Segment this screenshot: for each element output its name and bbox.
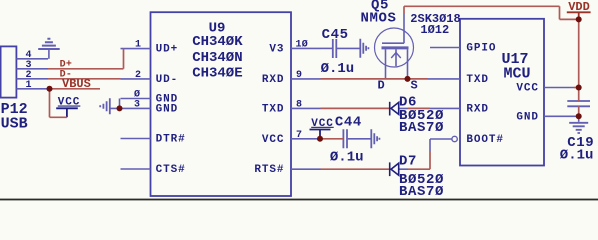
svg-text:V3: V3 (269, 43, 284, 55)
svg-text:D7: D7 (399, 154, 417, 170)
svg-text:BOOT#: BOOT# (466, 134, 504, 146)
svg-text:NMOS: NMOS (361, 11, 397, 27)
svg-text:BAS7Ø: BAS7Ø (399, 120, 444, 136)
svg-text:CH34ØN: CH34ØN (192, 50, 242, 66)
svg-text:UD-: UD- (156, 74, 179, 86)
svg-text:VCC: VCC (311, 118, 334, 130)
svg-text:Ø.1u: Ø.1u (321, 61, 355, 77)
svg-text:9: 9 (296, 70, 302, 81)
svg-text:GPIO: GPIO (466, 43, 496, 55)
svg-text:USB: USB (1, 116, 28, 133)
svg-text:VCC: VCC (58, 97, 81, 109)
svg-text:C45: C45 (322, 27, 349, 43)
svg-text:D: D (378, 79, 385, 93)
svg-text:RXD: RXD (466, 103, 489, 115)
svg-text:GND: GND (156, 103, 179, 115)
svg-text:S: S (411, 79, 418, 93)
svg-text:2: 2 (135, 70, 141, 81)
svg-text:GND: GND (516, 111, 539, 123)
svg-text:RXD: RXD (262, 74, 285, 86)
svg-text:VBUS: VBUS (62, 77, 91, 91)
svg-text:1: 1 (135, 40, 141, 51)
svg-text:1Ø: 1Ø (296, 38, 309, 50)
svg-text:C44: C44 (335, 115, 362, 131)
svg-text:UD+: UD+ (156, 44, 179, 56)
svg-text:CTS#: CTS# (156, 164, 186, 176)
svg-text:MCU: MCU (504, 65, 531, 82)
svg-text:CH34ØE: CH34ØE (192, 66, 242, 82)
svg-text:RTS#: RTS# (254, 164, 284, 176)
svg-text:1Ø12: 1Ø12 (420, 23, 449, 37)
svg-text:8: 8 (296, 99, 302, 110)
svg-text:Ø.1u: Ø.1u (560, 148, 594, 164)
svg-text:7: 7 (296, 130, 302, 141)
svg-text:BAS7Ø: BAS7Ø (399, 184, 444, 200)
svg-text:1: 1 (26, 80, 32, 91)
svg-text:VCC: VCC (516, 83, 539, 95)
svg-text:Ø.1u: Ø.1u (330, 150, 364, 166)
svg-text:3: 3 (134, 99, 140, 110)
svg-text:CH34ØK: CH34ØK (192, 34, 243, 50)
svg-text:VCC: VCC (262, 134, 285, 146)
svg-text:VDD: VDD (568, 0, 590, 14)
svg-text:TXD: TXD (466, 74, 489, 86)
svg-text:DTR#: DTR# (156, 134, 186, 146)
svg-text:TXD: TXD (262, 103, 285, 115)
